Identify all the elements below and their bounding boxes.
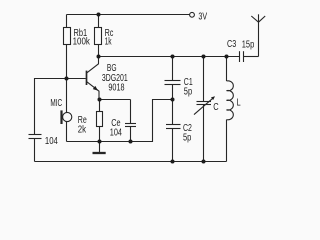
svg-text:L: L xyxy=(237,97,242,108)
svg-text:1k: 1k xyxy=(105,37,113,48)
svg-text:5p: 5p xyxy=(183,132,192,143)
svg-text:5p: 5p xyxy=(184,86,193,97)
svg-text:C3: C3 xyxy=(227,39,237,50)
svg-text:15p: 15p xyxy=(242,39,255,50)
svg-text:9018: 9018 xyxy=(108,83,124,94)
svg-text:100k: 100k xyxy=(73,37,91,48)
svg-text:3V: 3V xyxy=(198,12,207,23)
svg-text:C: C xyxy=(213,102,218,113)
svg-text:2k: 2k xyxy=(78,125,87,136)
svg-text:MIC: MIC xyxy=(50,98,62,109)
svg-text:104: 104 xyxy=(45,136,58,147)
svg-text:104: 104 xyxy=(110,127,123,138)
